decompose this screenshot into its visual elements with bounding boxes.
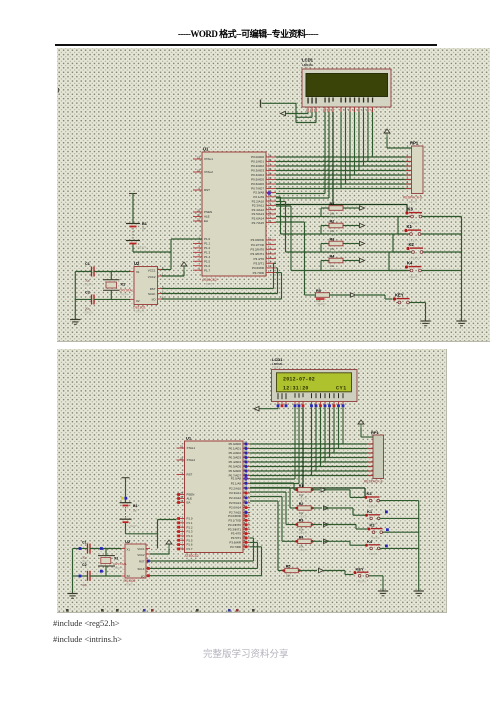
terminal arrow after R1 (panel 2) [321, 488, 326, 492]
svg-text:P3.1/TXD: P3.1/TXD [228, 519, 241, 523]
wire R5 arrow to KEY (panel 2) [324, 571, 354, 575]
svg-text:P2.6/A14: P2.6/A14 [229, 506, 241, 510]
svg-text:XTAL2: XTAL2 [187, 458, 196, 462]
wire P2.3 key line to K4 [276, 206, 410, 271]
ground symbol left (panel 2) [67, 594, 77, 599]
terminal arrow after R4 (panel 2) [324, 539, 329, 543]
svg-text:I/O: I/O [141, 574, 145, 578]
svg-text:EA: EA [187, 501, 191, 505]
battery B1 3V (panel 2) [120, 478, 139, 528]
terminal arrow after R3 (panel 2) [324, 522, 329, 526]
svg-text:LCD1: LCD1 [272, 357, 283, 362]
svg-text:P3.4/T0: P3.4/T0 [231, 532, 242, 536]
ground symbol left (panel 1) [70, 320, 80, 325]
stray mark at panel left edge (panel 1) [58, 88, 60, 93]
wire U1 to R1 (panel 2) [250, 483, 298, 490]
wire chain K1 to K2 [393, 234, 408, 252]
resistor R1 (panel 2) [295, 484, 314, 501]
svg-text:<TEXT>: <TEXT> [128, 524, 138, 528]
svg-text:P2.0/A8: P2.0/A8 [231, 477, 242, 481]
svg-text:<TEXT>: <TEXT> [272, 366, 282, 369]
push button K4 (panel 1) [405, 260, 424, 279]
svg-text:P3.3/INT1: P3.3/INT1 [228, 527, 241, 531]
microcontroller U1 AT89C52 (panel 1) [193, 147, 276, 287]
footer watermark text [203, 646, 289, 660]
wire U1 to R4 (panel 2) [250, 497, 298, 542]
logic square at K1 (panel 2) [385, 511, 388, 514]
svg-text:3V: 3V [133, 508, 137, 512]
svg-text:SCLK: SCLK [137, 567, 144, 571]
wire R1 to arrow (panel 2) [311, 489, 320, 491]
svg-text:30p: 30p [82, 556, 87, 560]
wire U2 I/O to U1 P3.7 [162, 273, 282, 299]
wire U1 to R2 (panel 2) [250, 488, 298, 509]
svg-text:K3: K3 [367, 491, 373, 496]
svg-text:P3.6/WR: P3.6/WR [229, 541, 241, 545]
wire U1 to R5 (panel 2) [250, 501, 285, 571]
wire R2 tap to K1 line [321, 226, 329, 235]
wire LCD data bus D0-D7 verticals (panel 1) [341, 112, 373, 189]
terminal arrow after R1 [360, 206, 365, 210]
ground symbol right rail (panel 1) [456, 321, 466, 326]
wire K4 to right rail (panel 2) [380, 547, 419, 549]
LCD display LCD1 (panel 2, running simulation) [272, 357, 358, 406]
wire E (dark) from LCD pin6 to U1 and K3 [276, 112, 407, 213]
svg-text:<TEXT>: <TEXT> [367, 504, 378, 508]
wire R4 extension to K4 (panel 2) [324, 541, 365, 545]
wire VDD from LCD pin2 [296, 112, 312, 117]
svg-text:P2.3/A11: P2.3/A11 [229, 491, 241, 495]
wire VSS from LCD pin1 to left terminal [285, 112, 308, 114]
svg-text:VCC1: VCC1 [137, 547, 145, 551]
bar terminal symbol (panel 1 top) [261, 100, 297, 108]
wire P0 data bus horizontals U1 to RP1 (panel 1) [276, 157, 412, 189]
push button KEY (panel 1) [393, 292, 412, 311]
wire U2 RST to U1 P3.5 (panel 2) [150, 538, 254, 561]
push button KEY (panel 2) [354, 566, 369, 583]
logic square at K2 (panel 2) [386, 528, 389, 531]
power terminal VCC2 arrow (panel 1) [162, 262, 188, 276]
wire K3 to right rail (panel 2) [380, 500, 419, 502]
svg-text:10k: 10k [286, 574, 291, 578]
wire battery to U2 VCC1 (panel 2) [126, 523, 158, 549]
svg-text:P3.7/RD: P3.7/RD [230, 545, 241, 549]
svg-text:<TEXT>: <TEXT> [285, 577, 295, 581]
capacitor C1 30p (panel 1) [83, 262, 94, 287]
wire U2 SCLK to U1 P3.6 [162, 268, 278, 294]
wire RS from LCD pin4 to U1 [276, 112, 325, 194]
svg-text:K4: K4 [367, 539, 373, 544]
power terminal VCC2 arrow (panel 2) [150, 540, 172, 554]
svg-text:XTAL1: XTAL1 [187, 446, 196, 450]
svg-text:X1: X1 [127, 548, 131, 552]
capacitor C1 30p (panel 2) [80, 541, 90, 564]
wire P0 bus horizontals U1 to RP1 (panel 2) [250, 444, 373, 476]
wire R1 tap to K3 line [321, 208, 329, 217]
right ground rail (panel 2) [418, 501, 420, 591]
right ground rail (panel 1) [461, 217, 463, 322]
svg-text:10k: 10k [299, 493, 304, 497]
terminal arrow after R3 [360, 241, 365, 245]
wire R3 extension to K2 (panel 2) [324, 525, 368, 530]
push button K3 (panel 2) [365, 491, 380, 508]
wire R4 tap to K4 line [321, 261, 329, 271]
resistor R4 (panel 2) [295, 535, 314, 552]
wire R1 extension to K3 (panel 2) [324, 490, 365, 498]
terminal arrow after R2 [360, 223, 365, 227]
logic squares at U2 pins (panel 2) [147, 560, 150, 578]
wire R1 to arrow [343, 207, 359, 209]
wire U2 I/O to U1 P3.7 (panel 2) [150, 547, 262, 576]
wire R5 to arrow [330, 294, 350, 296]
svg-text:<TEXT>: <TEXT> [124, 583, 134, 587]
microcontroller U1 AT89C52 (panel 2) [177, 436, 251, 563]
svg-text:X2: X2 [127, 574, 131, 578]
svg-text:CRYSTAL: CRYSTAL [113, 562, 127, 566]
wire U2 RST to U1 P3.5 [162, 263, 277, 288]
push button K4 (panel 2) [365, 539, 380, 556]
cut-off symbols at panel 2 bottom edge [66, 609, 255, 612]
svg-text:P0.6/AD6: P0.6/AD6 [229, 469, 242, 473]
logic squares near crystal (panel 2) [79, 547, 103, 577]
terminal arrow after R5 (panel 2) [319, 568, 324, 572]
wire R2 extension to K1 (panel 2) [324, 508, 365, 515]
svg-text:C1: C1 [82, 541, 87, 545]
resistor R1 (panel 1) [329, 202, 343, 219]
wire X2 net (panel 2) [73, 575, 122, 577]
svg-text:<TEXT>: <TEXT> [368, 552, 379, 556]
svg-text:RESPACK-8: RESPACK-8 [364, 480, 383, 484]
svg-text:P2.5/A13: P2.5/A13 [229, 501, 241, 505]
svg-text:<TEXT>: <TEXT> [298, 548, 308, 552]
capacitor C2 30p (panel 2) [82, 563, 90, 587]
terminal arrow after R5 [351, 293, 356, 297]
svg-text:CY1: CY1 [336, 386, 347, 392]
wire left ground rail (panel 1) [74, 272, 76, 320]
svg-text:P1.7: P1.7 [187, 547, 193, 551]
terminal arrow after R4 [360, 258, 365, 262]
wire X1 net (panel 2) [73, 548, 122, 550]
RTC chip U2 DS1302 (panel 2) [121, 539, 150, 587]
battery B1 3V (panel 1) [126, 194, 147, 250]
wire U2 SCLK to U1 P3.6 (panel 2) [150, 542, 258, 568]
wire U1 P1.0 to battery net (panel 2) [158, 520, 177, 534]
wire left ground rail (panel 2) [72, 549, 74, 594]
net marker diamond at P2.0 (panel 2) [244, 476, 249, 481]
wire LCD data verticals (panel 2) [312, 407, 344, 475]
svg-text:10k: 10k [299, 511, 304, 515]
resistor R2 (panel 1) [329, 219, 343, 236]
wire RW from LCD pin5 to U1 [276, 112, 329, 198]
wire R4 to arrow [343, 260, 359, 262]
wire K2 to right rail [423, 251, 462, 253]
svg-text:K2: K2 [370, 523, 376, 528]
power terminal VCC arrow at RP1 (panel 1) [384, 129, 412, 148]
wire K3 to right rail [422, 216, 462, 218]
svg-text:10k: 10k [299, 544, 304, 548]
power terminal VCC arrow at RP1 (panel 2) [358, 420, 373, 437]
wire KEY to ground (panel 2) [369, 576, 384, 591]
svg-text:VCC2: VCC2 [137, 553, 145, 557]
wire K1 to right rail (panel 2) [380, 517, 419, 519]
resistor R2 (panel 2) [295, 502, 314, 519]
wire VEE from LCD pin3 [296, 103, 316, 122]
ground symbol below KEY (panel 1) [420, 321, 430, 326]
svg-text:2012-07-02: 2012-07-02 [283, 377, 315, 383]
wire chain K3 to K1 [398, 217, 406, 235]
logic square at K4 (panel 2) [385, 545, 388, 548]
wire P2.5 key line to K1 [276, 197, 410, 234]
svg-text:<TEXT>: <TEXT> [113, 566, 123, 570]
svg-text:P0.1/AD1: P0.1/AD1 [229, 447, 242, 451]
schematic screenshot panel 1 background [57, 48, 490, 343]
resistor pack RP1 RESPACK-8 (panel 2) [364, 430, 384, 484]
svg-text:30p: 30p [82, 583, 87, 587]
wire R3 to arrow (panel 2) [311, 524, 322, 526]
document header title [0, 27, 496, 40]
svg-text:RP1: RP1 [371, 430, 380, 435]
wire U1 P1.0 to battery net [171, 239, 202, 252]
schematic screenshot panel 2 background [57, 349, 447, 613]
svg-text:RST: RST [139, 560, 145, 564]
resistor R5 (panel 1) [316, 289, 330, 306]
push button K1 (panel 1) [404, 224, 423, 243]
ground symbol right (panel 2) [414, 591, 424, 596]
wire R2 to arrow (panel 2) [311, 507, 322, 509]
svg-text:P2.1/A9: P2.1/A9 [231, 481, 242, 485]
push button K2 (panel 1) [406, 242, 425, 261]
wire R5 to arrow (panel 2) [298, 570, 317, 572]
LCD display LCD1 (panel 1, LM016L) [302, 58, 391, 113]
wire LCD pin1 to left terminal (panel 2) [259, 407, 279, 409]
wire KEY to ground [410, 303, 426, 322]
svg-text:12:31:20: 12:31:20 [283, 386, 309, 392]
svg-text:P3.0/RXD: P3.0/RXD [228, 514, 241, 518]
logic state squares on LCD pins (panel 2) [277, 404, 345, 407]
wire chain K2 to K4 [389, 252, 407, 271]
resistor R3 (panel 2) [295, 519, 314, 536]
wire X2 bottom net to U2 X2 pin [75, 298, 130, 300]
code line include intrins [53, 634, 122, 644]
svg-text:P0.0/AD0: P0.0/AD0 [229, 442, 242, 446]
wire R2 to arrow [343, 225, 359, 227]
wire R4 to arrow (panel 2) [311, 540, 322, 542]
wire RS to U1 (panel 2) [250, 407, 295, 479]
wire K2 to right rail (panel 2) [383, 531, 419, 533]
code line include reg52 [53, 618, 120, 628]
svg-text:P2.4/A12: P2.4/A12 [229, 496, 241, 500]
svg-text:K1: K1 [367, 509, 373, 514]
wire P2.7 to R5 [276, 222, 316, 295]
power terminal arrow (VSS, panel 1) [281, 111, 286, 115]
wire RW to U1 (panel 2) [250, 407, 299, 483]
svg-text:P0.4/AD4: P0.4/AD4 [229, 460, 242, 464]
push button K1 (panel 2) [365, 509, 380, 526]
svg-text:RST: RST [187, 473, 193, 477]
resistor R3 (panel 1) [329, 237, 343, 254]
svg-text:P0.3/AD3: P0.3/AD3 [229, 456, 242, 460]
wire K1 to right rail [421, 233, 462, 235]
push button K3 (panel 1) [405, 206, 424, 225]
svg-text:C2: C2 [82, 563, 87, 567]
push button K2 (panel 2) [368, 523, 383, 540]
power terminal arrow left of LCD (panel 2) [254, 407, 259, 411]
resistor R4 (panel 1) [329, 254, 343, 271]
wire P2.4 key line to K2 [276, 202, 412, 253]
svg-text:X1: X1 [114, 557, 118, 561]
capacitor C2 30p (panel 1) [83, 291, 94, 315]
svg-text:U2: U2 [125, 539, 131, 544]
header underline rule [55, 44, 437, 46]
crystal X1 (panel 2) [98, 549, 127, 577]
svg-text:P3.5/T1: P3.5/T1 [231, 536, 242, 540]
svg-text:U1: U1 [186, 436, 192, 441]
svg-text:P2.2/A10: P2.2/A10 [229, 486, 241, 490]
battery state squares yellow/blue (panel 2) [121, 497, 127, 500]
net marker diamond at P2.0 (panel 1) [267, 191, 272, 196]
resistor R5 (panel 2) [282, 565, 301, 582]
wire P2.6 key line to K3 [276, 216, 410, 218]
wire R3 to arrow [343, 243, 359, 245]
wire E dark to U1 and K3 (panel 2) [250, 407, 367, 497]
resistor pack RP1 RESPACK-8 (panel 1) [403, 141, 423, 205]
svg-text:P3.2/INT0: P3.2/INT0 [228, 523, 241, 527]
wire R3 tap to K2 line [321, 244, 329, 253]
svg-text:P0.5/AD5: P0.5/AD5 [229, 465, 242, 469]
wire K4 to right rail [422, 270, 462, 272]
wire battery to U2 VCC1 [133, 245, 171, 270]
svg-text:KEY: KEY [356, 566, 365, 571]
ground symbol below KEY (panel 2) [378, 591, 388, 596]
wire R5 arrow to KEY [356, 295, 393, 299]
svg-text:10k: 10k [299, 528, 304, 532]
crystal X1 32.768kHz (panel 1) [103, 272, 134, 300]
svg-text:<TEXT>: <TEXT> [298, 496, 308, 500]
terminal arrow after R2 (panel 2) [324, 506, 329, 510]
svg-text:P0.2/AD2: P0.2/AD2 [229, 451, 242, 455]
svg-text:<TEXT>: <TEXT> [356, 580, 367, 584]
wire X1 top net to U2 X1 pin [75, 271, 130, 273]
svg-text:DS1302: DS1302 [124, 579, 136, 583]
wire U1 to R3 (panel 2) [250, 492, 298, 525]
RTC chip U2 DS1302 (panel 1) [130, 261, 164, 314]
